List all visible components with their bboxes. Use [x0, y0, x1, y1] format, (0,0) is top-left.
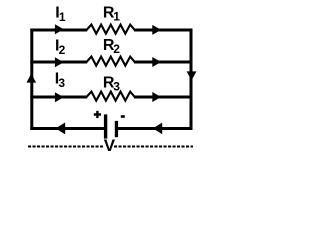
wire bottom branch right segment — [134, 96, 193, 99]
dashed measurement line left of V — [28, 146, 103, 148]
svg-text:V: V — [104, 136, 116, 152]
wire top branch left segment — [30, 29, 87, 32]
svg-text:I1: I1 — [55, 5, 66, 24]
arrow top branch right — [152, 25, 161, 35]
battery negative plate — [115, 121, 118, 137]
current arrow left on bottom-left wire — [56, 122, 66, 134]
svg-text:R3: R3 — [103, 74, 120, 93]
current arrow down on right rail — [187, 71, 197, 80]
resistor R1 — [87, 25, 135, 34]
wire bottom left segment — [30, 127, 104, 130]
current arrow I3 branch (left) — [55, 92, 64, 102]
resistor R2 — [87, 57, 135, 66]
svg-text:R1: R1 — [103, 5, 120, 24]
resistor R3 — [87, 92, 135, 101]
current arrow I2 branch (left) — [55, 57, 64, 67]
current arrow left on bottom-right wire — [153, 123, 162, 135]
svg-text:I2: I2 — [55, 38, 66, 57]
battery plus sign — [94, 111, 101, 118]
arrow bottom branch right — [152, 92, 161, 102]
wire top branch right segment — [134, 29, 193, 32]
current arrow up on left rail — [27, 74, 37, 83]
wire bottom right segment — [118, 127, 193, 130]
wire right rail — [190, 29, 193, 131]
wire bottom branch left segment — [30, 96, 87, 99]
current arrow I1 branch (left) — [55, 24, 64, 34]
svg-text:R2: R2 — [103, 37, 120, 56]
battery minus sign — [121, 115, 125, 118]
battery positive plate — [104, 114, 107, 138]
wire middle branch left segment — [30, 61, 87, 64]
wire middle branch right segment — [134, 61, 193, 64]
dashed measurement line right of V — [114, 146, 193, 148]
svg-text:I3: I3 — [55, 71, 66, 90]
wire left rail — [30, 29, 33, 131]
arrow middle branch right — [152, 57, 161, 67]
